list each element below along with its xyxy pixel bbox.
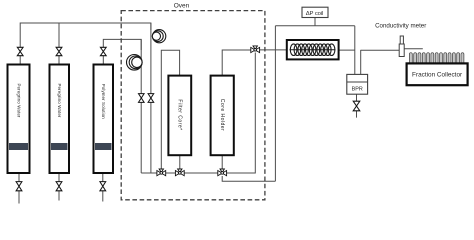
wire column 3 top stub	[102, 56, 104, 65]
valve column2 bottom	[56, 182, 62, 191]
label Conductivity meter	[375, 22, 426, 29]
wire column 1 top stub	[19, 56, 21, 65]
valve feed line 1 (mid oven)	[148, 94, 154, 103]
wire feed line 2 (through lower coil down to manifold)	[140, 39, 142, 173]
3-way valve C (Core Holder bottom)	[218, 169, 227, 176]
wire coil box outlet to BPR left leg	[339, 49, 355, 51]
wire bottom manifold with right riser to oven exit valve	[141, 53, 255, 174]
vessel Core Holder	[211, 76, 234, 156]
svg-text:Polymer Solution: Polymer Solution	[101, 84, 106, 120]
wire header1 (pumps 1-2 to oven coil feed)	[20, 23, 151, 47]
svg-text:Filter Core*: Filter Core*	[176, 99, 182, 130]
heating coil 1 (top, on feed line 1)	[152, 30, 166, 43]
svg-text:ΔP coil: ΔP coil	[306, 11, 324, 17]
wire BPR outlet drain	[356, 94, 358, 117]
wire dP coil label stub	[314, 18, 316, 26]
valve column3 bottom	[100, 182, 106, 191]
valve BPR outlet	[353, 101, 360, 111]
valve column3 top	[100, 47, 106, 55]
valve column2 top	[56, 47, 62, 55]
3-way valve B (Filter Core bottom)	[175, 169, 184, 176]
conductivity meter probe	[399, 36, 404, 57]
valve column1 bottom	[16, 182, 22, 191]
3-way valve A (to Filter Core inlet)	[157, 169, 166, 176]
valve column1 top	[17, 47, 23, 55]
wire Filter Core bottom stub to valve B	[179, 155, 181, 170]
dP measuring coil box (spring)	[287, 40, 339, 59]
wire header2 (pump 3 to oven coil feed)	[103, 39, 141, 50]
wire col2 riser	[58, 23, 60, 47]
wire drain from valve C to junction riser	[222, 176, 275, 181]
wire oven exit to coil box	[260, 49, 287, 51]
wire BPR left leg vertical	[354, 26, 356, 75]
wire feed line 1 (through top coil down to manifold)	[150, 23, 152, 173]
wire column 2 bottom drain	[58, 173, 60, 201]
svg-text:Peregrino Water: Peregrino Water	[16, 83, 21, 117]
svg-text:Oven: Oven	[174, 3, 190, 10]
accumulator column 3 (Polymer Solution)	[94, 65, 114, 174]
valve feed line 2 (mid oven)	[139, 94, 145, 103]
wire Core Holder top to oven exit valve	[222, 50, 250, 75]
svg-text:Core Holder: Core Holder	[219, 99, 225, 131]
svg-text:Fraction Collector: Fraction Collector	[412, 72, 463, 79]
svg-text:Conductivity meter: Conductivity meter	[375, 22, 426, 29]
wire valve A riser to Filter Core inlet	[161, 50, 179, 170]
3-way oven exit valve	[251, 46, 260, 53]
oven dashed enclosure	[121, 11, 265, 200]
wire column 3 bottom drain	[102, 173, 104, 202]
dP coil label box	[302, 7, 328, 17]
wire Core Holder bottom stub to valve C	[221, 155, 223, 170]
wire dP top sense line	[275, 25, 354, 27]
accumulator column 1 (Peregrino Water)	[8, 65, 30, 174]
wire column 2 top stub	[58, 56, 60, 65]
svg-text:Peregrino Water: Peregrino Water	[57, 83, 62, 117]
svg-text:BPR: BPR	[352, 87, 363, 93]
wire conductivity meter to fraction collector	[404, 48, 423, 50]
wire BPR right leg vertical	[360, 50, 362, 75]
accumulator column 2 (Peregrino Water)	[50, 65, 70, 174]
fraction collector box	[407, 63, 468, 85]
wire to conductivity meter	[361, 49, 400, 51]
BPR back-pressure regulator	[347, 74, 368, 94]
vessel Filter Core	[168, 76, 191, 156]
heating coil 2 (lower, on feed line 2)	[127, 55, 143, 71]
fraction collector tubes (comb)	[409, 53, 464, 63]
label Oven	[174, 3, 190, 10]
wire dP sense / drain junction vertical	[274, 26, 276, 182]
wire column 1 bottom drain	[18, 173, 20, 204]
